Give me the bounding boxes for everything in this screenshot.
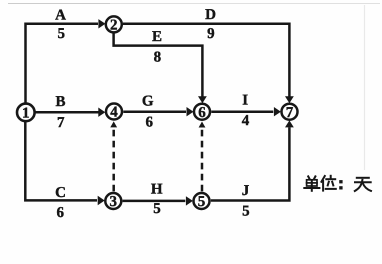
node 5 circle: [194, 193, 210, 209]
svg-text:A: A: [55, 7, 66, 23]
node 2 circle: [106, 16, 122, 32]
wire: activity E path from node 2 down, right, down to node 6: [114, 34, 203, 97]
node 7 circle: [282, 104, 298, 120]
svg-text:8: 8: [154, 49, 162, 65]
wire: activity D path from node 2 right then down to node 7: [123, 24, 289, 97]
svg-text:5: 5: [57, 26, 65, 42]
svg-text:9: 9: [207, 26, 215, 42]
wire: activity J path from node 5 right then up to node 7: [211, 127, 290, 200]
svg-text:J: J: [242, 183, 250, 199]
svg-text:6: 6: [146, 114, 154, 130]
arrowhead of B into node 4: [98, 108, 105, 117]
faint scan artifact vertical line right side: [364, 5, 366, 170]
arrowhead of J into node 7 (pointing up): [285, 120, 294, 127]
svg-text:1: 1: [22, 106, 30, 122]
svg-text:3: 3: [110, 194, 118, 210]
arrowhead of H into node 5: [186, 196, 193, 205]
node 1 circle: [17, 104, 35, 122]
arrowhead of G into node 6: [187, 107, 194, 116]
glyph 天: [357, 177, 369, 179]
dashed dummy arrow from node 3 up to node 4: [112, 129, 115, 192]
arrowhead of D into node 7 (pointing down): [285, 96, 294, 103]
unit annotation: 单位：天 drawn as strokes: [304, 176, 371, 191]
svg-text:7: 7: [286, 105, 294, 121]
node 4 circle: [106, 104, 122, 120]
wire: activity H from node 3 to node 5: [123, 200, 186, 203]
svg-text:4: 4: [110, 105, 118, 121]
arrowhead of dummy 5-6 (pointing up): [199, 122, 206, 128]
wire: activity C path from node 1 down and right to node 3: [25, 122, 97, 201]
arrowhead of dummy 3-4 (pointing up): [110, 121, 117, 127]
wire: activity G from node 4 to node 6: [123, 110, 186, 113]
svg-text:B: B: [55, 94, 65, 110]
svg-text:5: 5: [198, 194, 206, 210]
arrowhead of A into node 2: [98, 19, 105, 28]
svg-text:H: H: [151, 181, 163, 197]
wire: activity B from node 1 to node 4: [35, 111, 98, 114]
faint scan artifact top border: [8, 3, 110, 5]
arrowhead of E into node 6 (pointing down): [198, 96, 207, 103]
wire: activity A path from node 1 up and right to node 2: [26, 24, 99, 104]
glyph 单: [308, 176, 310, 179]
glyph 位: [322, 181, 324, 191]
node 3 circle: [105, 193, 121, 209]
arrowhead of I into node 7: [274, 107, 281, 116]
svg-text:I: I: [242, 93, 248, 109]
wire: activity I from node 6 to node 7: [211, 110, 273, 113]
svg-text:7: 7: [57, 115, 65, 131]
svg-text:C: C: [55, 185, 66, 201]
svg-text:E: E: [152, 29, 162, 45]
node 6 circle: [194, 104, 210, 120]
svg-text:5: 5: [153, 201, 161, 217]
svg-text:D: D: [205, 7, 216, 23]
svg-text:6: 6: [198, 105, 206, 121]
svg-text:6: 6: [56, 205, 64, 221]
dashed dummy arrow from node 5 up to node 6: [201, 129, 204, 192]
svg-text:4: 4: [242, 113, 250, 129]
arrowhead of C into node 3: [98, 196, 105, 205]
svg-text:2: 2: [110, 18, 118, 34]
svg-text:G: G: [142, 94, 154, 110]
glyph fullwidth colon: [339, 180, 342, 183]
svg-text:5: 5: [242, 204, 250, 220]
